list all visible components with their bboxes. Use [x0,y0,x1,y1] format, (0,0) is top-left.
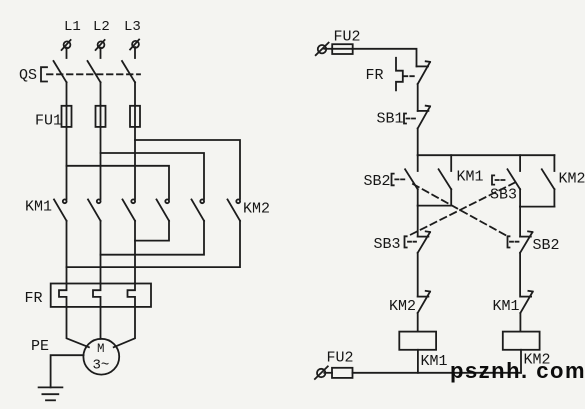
wire L1 to QS [66,48,68,58]
wire FR to motor u [67,307,89,347]
fuse FU2 bottom [324,368,352,378]
interlock link SB2 (dashed) [413,184,508,237]
button SB2 actuator [392,174,394,186]
wire KM2 contact5 to phase2 [101,221,205,255]
svg-text:L2: L2 [93,19,110,35]
contactor KM2 main contact 4 [157,199,170,220]
wire left branch to SB3 NC [417,206,419,237]
wire phase2 branch to KM2 contact5 [101,153,205,199]
button SB2 link (dashed) [395,178,406,180]
svg-text:L3: L3 [124,19,141,35]
terminal L3 [130,40,139,50]
svg-text:FR: FR [25,290,43,307]
switch QS link (dashed) [47,73,140,75]
svg-text:FU2: FU2 [327,350,354,367]
button SB2 NC contact [520,231,532,252]
wire L3 to QS [134,47,136,58]
svg-text:3~: 3~ [93,358,110,374]
contactor KM2 main contact 5 [192,199,205,220]
svg-text:FU1: FU1 [35,113,62,130]
svg-text:KM2: KM2 [243,201,270,218]
button SB2 NC actuator [508,236,510,247]
button SB2 NO contact [405,155,418,189]
wire KM1 contact1 to FR [66,221,68,284]
wire phase1 FU1 to KM1 contact [66,127,68,199]
coil KM2 [503,332,540,350]
button SB3 NC actuator [405,236,407,247]
svg-text:L1: L1 [64,19,81,35]
svg-text:KM1: KM1 [25,199,52,216]
svg-text:PE: PE [31,338,49,355]
switch QS blade pole1 [54,61,67,82]
wire QS to FU1 pole2 [100,82,102,106]
button SB3 NO contact [508,155,521,189]
fuse FU1 pole1 [62,106,72,127]
svg-text:SB2: SB2 [364,173,391,190]
fuse FU1 pole2 [96,106,106,127]
svg-text:QS: QS [19,67,37,84]
button SB3 link (dashed) [496,179,507,181]
button SB2 NC link (dashed) [510,241,519,243]
wire phase1 branch to KM2 contact4 [67,166,170,199]
wire phase3 FU1 to KM1 contact [134,127,136,199]
wire FR to motor w [114,307,135,347]
terminal L2 [96,40,105,50]
contactor KM1 main contact 3 [123,199,136,220]
wire SB1 to junction [417,128,419,155]
contactor KM1 main contact 1 [54,199,67,220]
interlock link SB3 (dashed) [408,183,515,237]
svg-text:KM2: KM2 [389,298,416,315]
contactor KM1 main contact 2 [88,199,101,220]
terminal N (bottom) [315,366,328,379]
contactor KM1 NC interlock contact [520,291,532,313]
svg-text:FU2: FU2 [334,29,361,46]
wire coil KM2 to bus [520,350,522,373]
terminal L (top) [316,43,329,56]
wire FU2 to FR contact [352,49,416,67]
svg-text:KM1: KM1 [457,169,484,186]
wire KM2 NC to coil KM1 [417,313,419,332]
svg-text:SB2: SB2 [533,237,560,254]
button SB3 actuator [492,175,494,184]
svg-text:KM2: KM2 [559,171,585,188]
svg-text:M: M [97,342,105,356]
button SB1 link (dashed) [407,118,417,120]
wire FR to motor v [100,307,102,339]
svg-text:SB1: SB1 [377,111,404,128]
wire SB3 to merge right [519,189,521,206]
svg-text:FR: FR [366,67,384,84]
thermal relay FR NC contact [417,61,431,84]
wire KM1 NC to coil KM2 [519,313,521,332]
button SB3 NC link (dashed) [408,241,416,243]
button SB1 NC contact [418,106,430,129]
coil KM1 [399,332,436,350]
contactor KM2 main contact 6 [228,199,241,220]
wire merge left [418,205,452,207]
wire right branch to SB2 NC [519,207,521,237]
thermal relay FR link (dashed) [404,75,417,77]
wire SB3 NC to KM2 NC [417,253,419,297]
svg-text:psznh. com: psznh. com [450,358,585,383]
wire KM1 contact2 to FR [100,221,102,284]
switch QS handle [41,67,47,81]
wire PE [51,355,84,387]
thermal relay FR heater 1 [59,284,67,307]
wire KM2 contact6 to phase1 [67,221,241,267]
wire SB2 NC to KM1 NC [519,253,521,297]
wire L2 to QS [100,48,102,58]
thermal relay FR box [51,284,151,307]
switch QS blade pole3 [122,61,135,82]
wire bottom bus [353,372,522,374]
wire FR to SB1 [417,84,419,111]
contactor KM2 NC interlock contact [418,291,430,313]
wire phase2 FU1 to KM1 contact [100,127,102,199]
wire phase3 branch to KM2 contact6 [135,140,240,199]
thermal relay FR heater 2 [93,284,101,307]
switch QS blade pole2 [88,61,101,82]
button SB1 actuator [404,114,406,124]
wire QS to FU1 pole3 [134,82,136,106]
contactor KM2 aux NO contact [542,155,555,206]
svg-text:KM1: KM1 [421,353,448,370]
thermal relay FR heater 3 [128,284,136,307]
terminal L1 [62,40,71,50]
motor M1 [83,339,119,375]
svg-text:KM1: KM1 [493,298,520,315]
wire coil KM1 to bus [417,350,419,373]
fuse FU2 top [324,44,353,54]
wire KM1 contact3 to FR [134,221,136,284]
wire merge right [520,206,554,208]
wire junction rail [418,154,555,156]
contactor KM1 aux NO contact [439,155,452,205]
wire QS to FU1 pole1 [66,82,68,106]
svg-text:SB3: SB3 [374,236,401,253]
wire SB2 to merge left [417,189,419,205]
wire KM2 contact4 to phase3 [135,221,169,241]
button SB3 NC contact [418,231,430,252]
fuse FU1 pole3 [130,106,140,127]
ground [39,387,63,400]
thermal relay FR actuator [396,58,403,91]
